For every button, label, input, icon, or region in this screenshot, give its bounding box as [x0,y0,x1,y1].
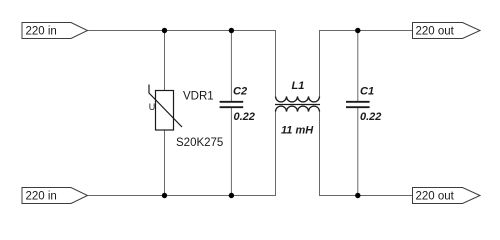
junction dot bottom C1 [355,193,360,198]
svg-text:U: U [149,102,156,112]
junction dot top C2 [229,28,234,33]
svg-text:220 in: 220 in [26,190,57,202]
inductor L1 top winding [276,96,320,102]
junction dot bottom C2 [229,193,234,198]
wire L1 left bottom [275,112,277,196]
junction dot top varistor [162,28,167,33]
wire varistor bottom [164,130,166,196]
terminal flag 220 out (bottom) [413,188,481,204]
wire C2 top [230,31,232,102]
inductor L1 core [275,104,320,106]
wire top-left rail [88,30,276,32]
junction dot top C1 [355,28,360,33]
svg-text:S20K275: S20K275 [176,137,223,149]
svg-text:0.22: 0.22 [360,111,381,123]
wire C1 bottom [357,107,359,196]
svg-text:VDR1: VDR1 [183,91,214,103]
svg-text:11 mH: 11 mH [281,125,314,137]
wire C1 top [357,31,359,102]
svg-text:L1: L1 [292,80,305,92]
terminal flag 220 in (top) [22,23,88,39]
svg-text:0.22: 0.22 [234,111,255,123]
inductor L1 bottom winding [276,106,320,112]
capacitor C1 plates [346,102,370,107]
svg-text:C2: C2 [233,86,247,98]
terminal flag 220 in (bottom) [22,188,88,204]
wire L1 left top [275,30,277,96]
wire C2 bottom [230,107,232,196]
svg-text:C1: C1 [360,86,374,98]
wire L1 right top [319,30,321,96]
wire bottom-left rail [88,195,276,197]
terminal flag 220 out (top) [413,23,481,39]
svg-text:220 out: 220 out [416,190,455,202]
wire bottom-right rail [320,195,413,197]
wire varistor top [164,31,166,91]
varistor VDR1 body [149,85,182,131]
capacitor C2 plates [220,102,244,107]
wire L1 right bottom [319,112,321,196]
junction dot bottom varistor [162,193,167,198]
svg-text:220 in: 220 in [26,25,57,37]
svg-text:220 out: 220 out [416,25,455,37]
wire top-right rail [320,30,413,32]
